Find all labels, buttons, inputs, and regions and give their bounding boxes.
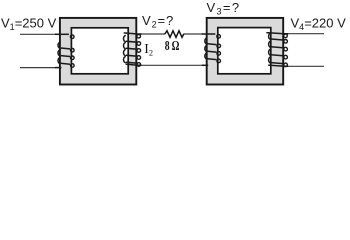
transformer T1 iron core (60, 18, 136, 85)
transformer T2 iron core (207, 18, 284, 85)
svg-text:V1=250 V: V1=250 V (1, 15, 57, 32)
wire: bottom middle between T1 and T2 (140, 64, 203, 66)
wire: bottom-right lead from T2 secondary (287, 65, 324, 67)
winding: T1 primary coil (55, 34, 74, 67)
svg-text:V4=220 V: V4=220 V (291, 16, 347, 32)
svg-text:V2=?: V2=? (142, 13, 174, 30)
wire: T1 secondary to resistor (140, 33, 165, 35)
wire: resistor to T2 primary (184, 33, 204, 35)
winding: T1 secondary coil (123, 33, 141, 66)
svg-text:V3=?: V3=? (207, 0, 241, 16)
wire: bottom-left lead from T1 primary (20, 67, 56, 69)
wire: top-left lead into T1 primary (20, 33, 56, 35)
winding: T2 primary coil (202, 34, 221, 65)
resistor R (8 ohm) zigzag (165, 31, 184, 38)
svg-text:8 Ω: 8 Ω (165, 39, 180, 54)
wire: top-right lead from T2 secondary (287, 33, 324, 35)
winding: T2 secondary coil (266, 33, 288, 67)
